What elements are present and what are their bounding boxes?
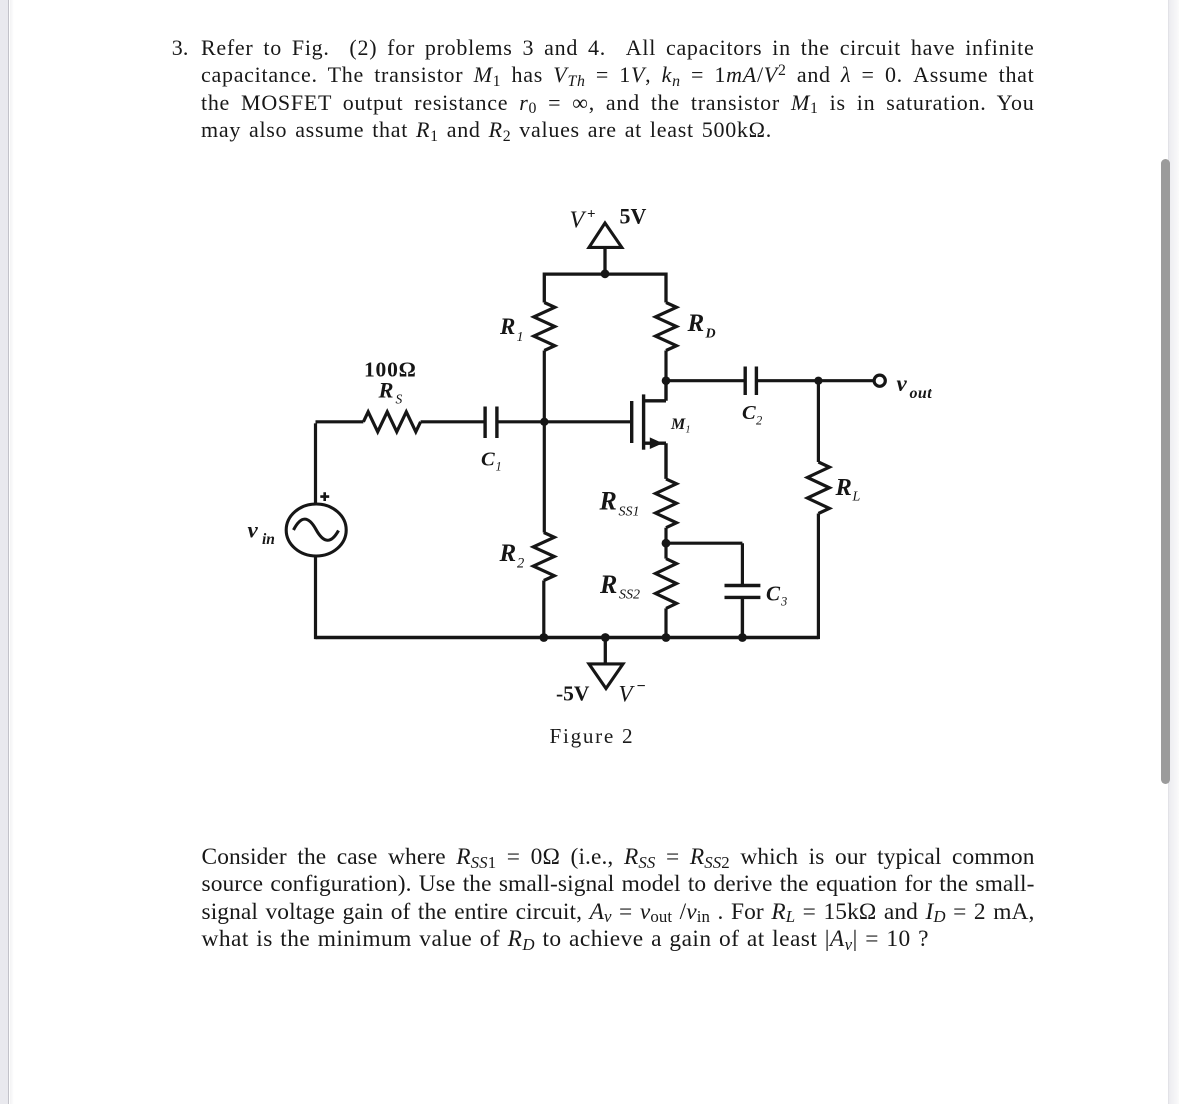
wire vin bottom to rail corner: [314, 556, 317, 640]
paragraph 2: [0, 0, 1, 1]
svg-text:in: in: [262, 531, 275, 548]
label + polarity: [320, 492, 329, 501]
wire output node down to RL: [817, 381, 820, 462]
svg-text:C: C: [742, 402, 756, 424]
svg-text:R: R: [599, 570, 617, 599]
svg-text:−: −: [637, 678, 646, 695]
resistor RSS1: [656, 479, 677, 528]
label M1: [670, 416, 691, 436]
svg-text:2: 2: [756, 414, 762, 428]
paragraph 1: [0, 0, 1, 1]
svg-text:1: 1: [496, 460, 502, 474]
resistor RS: [363, 412, 420, 432]
power supply symbol V+ (triangle): [589, 223, 622, 247]
label V-: [619, 678, 646, 707]
svg-text:+: +: [587, 207, 596, 223]
svg-text:R: R: [599, 487, 617, 516]
transistor M1 (NMOS): [632, 381, 666, 479]
svg-text:out: out: [910, 385, 933, 402]
svg-text:R: R: [378, 378, 394, 403]
node rail C3 junction: [738, 633, 747, 642]
wire bottom rail: [316, 636, 819, 640]
svg-text:1: 1: [517, 330, 524, 345]
wire R1 bottom to gate node: [543, 351, 546, 422]
svg-text:C: C: [481, 449, 495, 471]
svg-text:SS1: SS1: [619, 505, 640, 520]
resistor R2: [533, 533, 554, 581]
scrollbar thumb: [1161, 159, 1171, 784]
svg-text:S: S: [396, 392, 403, 407]
svg-text:v: v: [248, 518, 259, 543]
label RD: [687, 310, 716, 342]
right page edge + scrollbar track: [1168, 0, 1170, 1104]
label R2: [499, 540, 525, 572]
svg-text:5V: 5V: [620, 204, 647, 229]
svg-text:-5V: -5V: [556, 682, 590, 706]
label C2: [742, 402, 762, 428]
svg-text:V: V: [570, 208, 587, 234]
label RSS2: [599, 570, 640, 603]
svg-text:V: V: [619, 682, 636, 707]
label C3: [766, 582, 787, 609]
svg-text:D: D: [705, 327, 716, 342]
svg-text:C: C: [766, 582, 781, 606]
svg-text:3: 3: [780, 595, 787, 609]
wire R2 bottom to rail: [542, 581, 545, 640]
node rail R2 junction: [539, 633, 548, 642]
node rail ground junction: [601, 633, 610, 642]
label R1: [499, 314, 524, 345]
transistor M1 source arrow: [650, 437, 663, 449]
node output junction: [814, 377, 822, 385]
label C1: [481, 449, 502, 474]
svg-text:R: R: [687, 310, 705, 337]
capacitor C3: [725, 586, 761, 640]
wire C2 to output node: [756, 379, 818, 382]
wire gate node to gate: [544, 420, 631, 423]
label RL: [835, 474, 861, 505]
label V+: [570, 207, 596, 234]
svg-text:SS2: SS2: [619, 588, 640, 603]
resistor RL: [807, 462, 829, 513]
node top rail junction: [601, 269, 610, 278]
label RS: [378, 378, 403, 407]
svg-text:L: L: [852, 490, 861, 505]
wire mid node to C3 branch: [666, 543, 742, 585]
svg-text:2: 2: [517, 556, 524, 572]
node gate junction: [540, 418, 548, 426]
left page-edge strip: [0, 0, 9, 1104]
wire C1 to gate node: [497, 420, 544, 423]
ground symbol V- (triangle): [589, 664, 623, 689]
label vout: [897, 371, 933, 402]
capacitor C1: [485, 407, 497, 439]
wire gate node down to R2: [543, 422, 546, 533]
svg-text:M: M: [670, 416, 686, 433]
wire ground stem: [604, 638, 607, 664]
wire RD bottom to drain node: [664, 351, 667, 381]
svg-text:R: R: [499, 540, 517, 567]
resistor RD: [656, 303, 677, 351]
wire top rail: [544, 273, 666, 303]
node rail RSS2 junction: [662, 633, 671, 642]
svg-text:R: R: [835, 474, 852, 501]
capacitor C2: [745, 367, 756, 396]
svg-text:1: 1: [686, 425, 691, 436]
svg-text:R: R: [499, 314, 515, 339]
node drain junction: [662, 376, 671, 385]
wire vin top to input corner: [316, 422, 364, 505]
svg-text:v: v: [897, 371, 908, 396]
wire RSS1 to mid node: [664, 528, 667, 544]
wire supply stem: [603, 247, 606, 272]
wire output node to terminal: [818, 379, 873, 382]
resistor RSS2: [656, 543, 677, 639]
wire drain node to C2: [666, 379, 745, 382]
figure caption: [550, 724, 635, 749]
source vin (circle with sine): [286, 504, 346, 556]
wire RL bottom to rail: [817, 514, 820, 640]
label RSS1: [599, 487, 640, 520]
resistor R1: [534, 303, 555, 351]
label vin: [248, 518, 275, 549]
terminal vout (open circle): [874, 375, 885, 386]
wire RS to C1: [421, 420, 486, 423]
node source mid junction: [662, 539, 671, 548]
